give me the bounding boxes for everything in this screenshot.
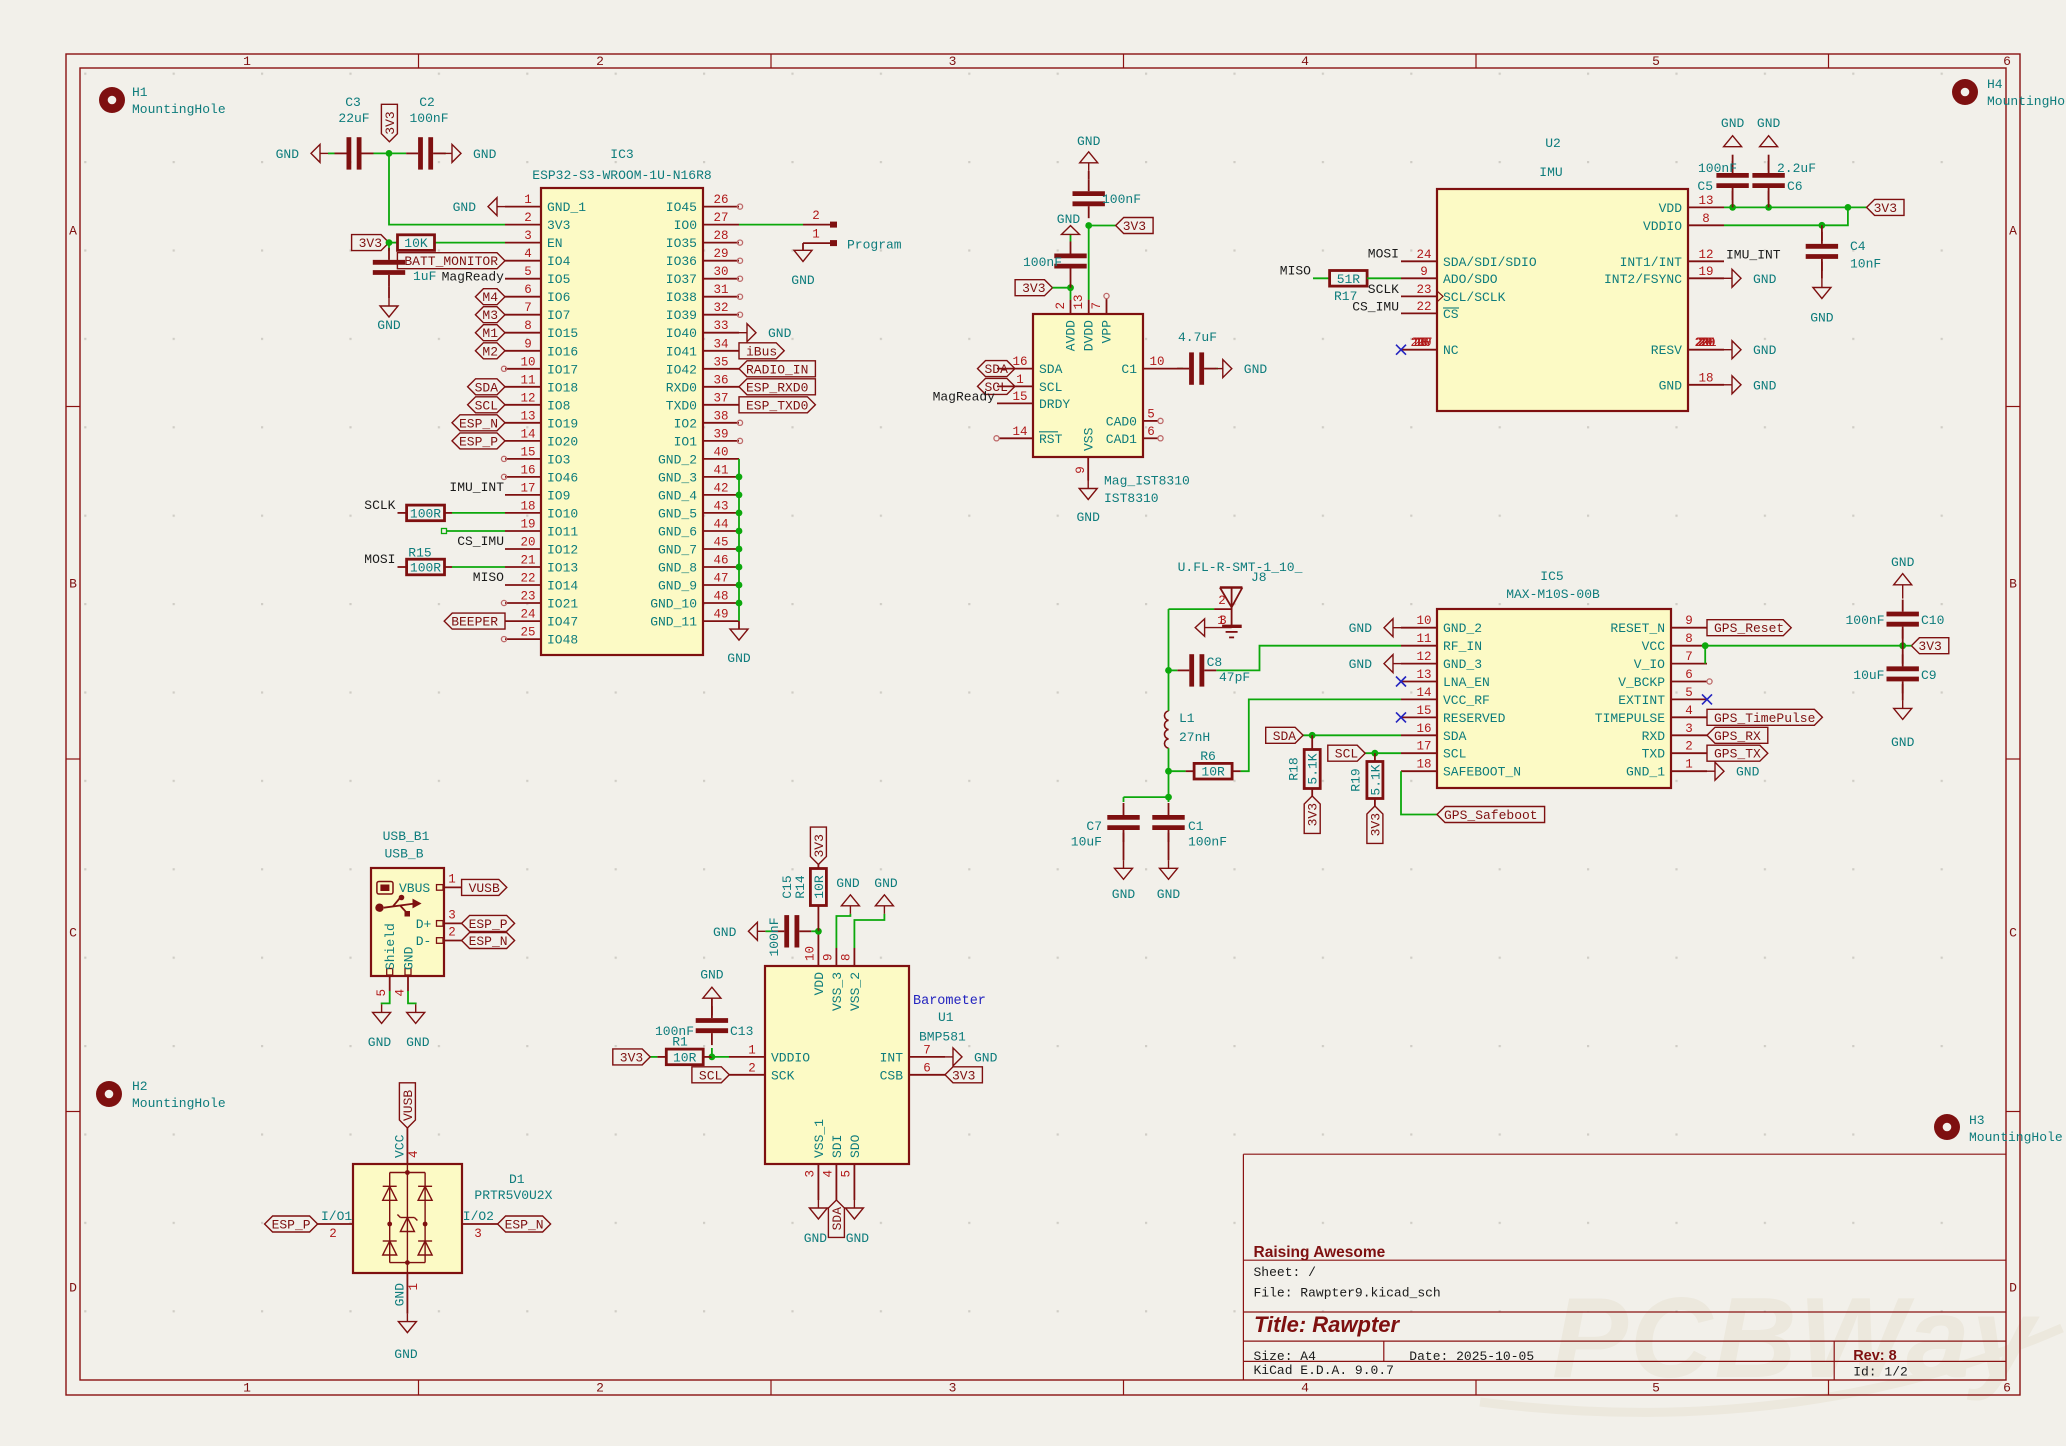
svg-text:SDA/SDI/SDIO: SDA/SDI/SDIO xyxy=(1443,255,1537,270)
svg-text:1: 1 xyxy=(1016,373,1024,387)
svg-text:GND: GND xyxy=(974,1050,998,1065)
svg-text:3V3: 3V3 xyxy=(359,236,382,251)
svg-text:IO46: IO46 xyxy=(547,470,578,485)
svg-text:Title: Rawpter: Title: Rawpter xyxy=(1254,1312,1401,1337)
svg-text:GND: GND xyxy=(1736,765,1760,780)
svg-text:GND_1: GND_1 xyxy=(547,200,586,215)
svg-text:TXD: TXD xyxy=(1642,747,1666,762)
svg-text:GPS_Reset: GPS_Reset xyxy=(1714,621,1784,636)
svg-text:CSB: CSB xyxy=(880,1068,904,1083)
svg-text:18: 18 xyxy=(1416,758,1431,772)
svg-text:IST8310: IST8310 xyxy=(1104,491,1159,506)
svg-text:GND: GND xyxy=(1157,887,1181,902)
svg-text:8: 8 xyxy=(524,319,532,333)
svg-text:4.7uF: 4.7uF xyxy=(1178,330,1217,345)
svg-text:5: 5 xyxy=(1652,1381,1660,1396)
svg-text:GND: GND xyxy=(1891,555,1915,570)
svg-text:16: 16 xyxy=(1416,722,1431,736)
svg-text:GND: GND xyxy=(1721,116,1745,131)
svg-text:3: 3 xyxy=(804,1170,818,1178)
svg-text:IO37: IO37 xyxy=(666,272,697,287)
svg-text:SCLK: SCLK xyxy=(364,498,395,513)
svg-text:SCL: SCL xyxy=(1039,380,1062,395)
svg-text:VCC_RF: VCC_RF xyxy=(1443,693,1490,708)
svg-text:IO5: IO5 xyxy=(547,272,570,287)
svg-text:ESP_RXD0: ESP_RXD0 xyxy=(746,380,808,395)
svg-text:18: 18 xyxy=(520,499,535,513)
svg-text:15: 15 xyxy=(1416,704,1431,718)
svg-text:C9: C9 xyxy=(1921,668,1937,683)
svg-text:2: 2 xyxy=(1685,740,1693,754)
svg-text:IO36: IO36 xyxy=(666,254,697,269)
svg-text:5: 5 xyxy=(1147,407,1155,421)
svg-text:GND: GND xyxy=(402,946,417,970)
svg-text:IO40: IO40 xyxy=(666,326,697,341)
svg-text:U.FL-R-SMT-1_10_: U.FL-R-SMT-1_10_ xyxy=(1178,560,1303,575)
svg-text:VDD: VDD xyxy=(1659,201,1683,216)
svg-text:3V3: 3V3 xyxy=(952,1068,975,1083)
svg-text:47pF: 47pF xyxy=(1219,670,1250,685)
svg-text:IO18: IO18 xyxy=(547,380,578,395)
svg-text:IO47: IO47 xyxy=(547,615,578,630)
svg-text:10: 10 xyxy=(1416,614,1431,628)
svg-text:GND: GND xyxy=(1077,134,1101,149)
svg-text:GND: GND xyxy=(1057,212,1081,227)
svg-text:GND_7: GND_7 xyxy=(658,543,697,558)
svg-text:15: 15 xyxy=(520,445,535,459)
svg-text:MISO: MISO xyxy=(473,570,504,585)
svg-text:5: 5 xyxy=(375,989,389,997)
svg-text:Rev: 8: Rev: 8 xyxy=(1853,1348,1897,1364)
svg-text:37: 37 xyxy=(713,391,728,405)
svg-text:9: 9 xyxy=(1074,466,1088,474)
svg-text:GND: GND xyxy=(377,318,401,333)
svg-text:Program: Program xyxy=(847,238,902,253)
svg-text:IO17: IO17 xyxy=(547,362,578,377)
svg-text:TIMEPULSE: TIMEPULSE xyxy=(1595,711,1665,726)
svg-text:IO8: IO8 xyxy=(547,398,570,413)
svg-text:GND: GND xyxy=(1349,657,1373,672)
svg-text:6: 6 xyxy=(1147,425,1155,439)
svg-text:31: 31 xyxy=(713,283,728,297)
svg-text:J8: J8 xyxy=(1251,570,1267,585)
svg-text:IO2: IO2 xyxy=(674,416,697,431)
svg-text:GND: GND xyxy=(874,876,898,891)
svg-text:VCC: VCC xyxy=(1642,639,1666,654)
svg-text:H1: H1 xyxy=(132,85,148,100)
svg-text:4: 4 xyxy=(524,247,532,261)
svg-text:IO13: IO13 xyxy=(547,561,578,576)
svg-text:SDO: SDO xyxy=(848,1134,863,1158)
svg-text:ESP_TXD0: ESP_TXD0 xyxy=(746,398,808,413)
svg-text:100nF: 100nF xyxy=(655,1024,694,1039)
svg-text:GND: GND xyxy=(453,200,477,215)
svg-text:NC: NC xyxy=(1443,343,1459,358)
svg-text:TXD0: TXD0 xyxy=(666,398,697,413)
svg-text:41: 41 xyxy=(713,463,728,477)
svg-text:9: 9 xyxy=(524,337,532,351)
svg-text:GND: GND xyxy=(1112,887,1136,902)
svg-text:IC5: IC5 xyxy=(1540,569,1563,584)
svg-text:C: C xyxy=(69,926,77,941)
svg-text:2: 2 xyxy=(1054,302,1068,310)
svg-text:A: A xyxy=(2009,224,2017,239)
svg-text:GND_9: GND_9 xyxy=(658,579,697,594)
svg-text:ESP_P: ESP_P xyxy=(469,917,508,932)
svg-text:20: 20 xyxy=(520,536,535,550)
svg-text:GPS_RX: GPS_RX xyxy=(1714,729,1761,744)
svg-text:3V3: 3V3 xyxy=(383,111,398,134)
svg-text:GND: GND xyxy=(368,1035,392,1050)
svg-text:10: 10 xyxy=(1149,355,1164,369)
svg-text:GND: GND xyxy=(1753,378,1777,393)
svg-text:1: 1 xyxy=(243,1381,251,1396)
svg-text:IMU_INT: IMU_INT xyxy=(449,480,504,495)
svg-text:GND: GND xyxy=(727,651,751,666)
svg-text:10nF: 10nF xyxy=(1850,257,1881,272)
svg-text:VDDIO: VDDIO xyxy=(1643,219,1682,234)
svg-text:SDA: SDA xyxy=(1039,362,1063,377)
svg-text:GPS_TX: GPS_TX xyxy=(1714,747,1761,762)
svg-text:IO10: IO10 xyxy=(547,506,578,521)
svg-text:VSS_2: VSS_2 xyxy=(848,972,863,1011)
svg-text:C1: C1 xyxy=(1188,819,1204,834)
svg-text:7: 7 xyxy=(923,1043,931,1057)
svg-text:C7: C7 xyxy=(1086,819,1102,834)
svg-text:U1: U1 xyxy=(938,1010,954,1025)
svg-text:GND: GND xyxy=(836,876,860,891)
svg-text:13: 13 xyxy=(1416,668,1431,682)
svg-text:9: 9 xyxy=(1420,265,1428,279)
svg-text:AVDD: AVDD xyxy=(1064,320,1079,351)
svg-text:10K: 10K xyxy=(404,236,428,251)
svg-text:3V3: 3V3 xyxy=(1918,639,1941,654)
svg-text:10R: 10R xyxy=(673,1050,697,1065)
svg-text:C2: C2 xyxy=(419,95,435,110)
svg-text:IO19: IO19 xyxy=(547,416,578,431)
svg-text:4: 4 xyxy=(393,989,407,997)
svg-text:36: 36 xyxy=(713,373,728,387)
svg-text:GND_8: GND_8 xyxy=(658,561,697,576)
svg-text:Size: A4: Size: A4 xyxy=(1254,1349,1317,1364)
svg-text:GND_1: GND_1 xyxy=(1626,765,1665,780)
svg-text:12: 12 xyxy=(1416,650,1431,664)
svg-text:10uF: 10uF xyxy=(1071,835,1102,850)
svg-text:3: 3 xyxy=(474,1227,482,1241)
svg-text:MOSI: MOSI xyxy=(364,552,395,567)
svg-text:GND: GND xyxy=(791,273,815,288)
svg-text:27: 27 xyxy=(713,211,728,225)
svg-text:22: 22 xyxy=(1416,300,1431,314)
svg-text:SDA: SDA xyxy=(475,380,499,395)
svg-text:BEEPER: BEEPER xyxy=(451,615,498,630)
svg-text:CAD0: CAD0 xyxy=(1106,414,1137,429)
svg-text:MountingHole: MountingHole xyxy=(1969,1130,2063,1145)
svg-text:3V3: 3V3 xyxy=(1022,281,1045,296)
svg-text:RXD0: RXD0 xyxy=(666,380,697,395)
svg-text:I/O1: I/O1 xyxy=(321,1209,352,1224)
svg-text:R19: R19 xyxy=(1349,768,1364,791)
svg-text:5: 5 xyxy=(524,265,532,279)
svg-text:1: 1 xyxy=(812,228,820,242)
svg-text:GND: GND xyxy=(1757,116,1781,131)
svg-text:5: 5 xyxy=(1652,54,1660,69)
svg-text:SDA: SDA xyxy=(1443,729,1467,744)
svg-text:C6: C6 xyxy=(1787,179,1803,194)
svg-text:4: 4 xyxy=(1685,704,1693,718)
svg-text:14: 14 xyxy=(1416,686,1431,700)
svg-text:IO9: IO9 xyxy=(547,488,570,503)
svg-text:17: 17 xyxy=(1416,740,1431,754)
svg-text:3V3: 3V3 xyxy=(1123,219,1146,234)
svg-text:4: 4 xyxy=(822,1170,836,1178)
svg-text:3: 3 xyxy=(1685,722,1693,736)
svg-text:13: 13 xyxy=(520,409,535,423)
svg-text:IO16: IO16 xyxy=(547,344,578,359)
svg-text:2: 2 xyxy=(596,54,604,69)
svg-text:100nF: 100nF xyxy=(1023,255,1062,270)
svg-text:RF_IN: RF_IN xyxy=(1443,639,1482,654)
svg-text:R6: R6 xyxy=(1200,749,1216,764)
svg-text:10uF: 10uF xyxy=(1853,668,1884,683)
svg-text:MISO: MISO xyxy=(1280,263,1311,278)
svg-text:2: 2 xyxy=(329,1227,337,1241)
svg-text:40: 40 xyxy=(713,445,728,459)
svg-text:22: 22 xyxy=(520,572,535,586)
svg-text:3V3: 3V3 xyxy=(1306,803,1321,826)
svg-text:VUSB: VUSB xyxy=(401,1090,416,1121)
svg-text:D+: D+ xyxy=(416,917,432,932)
svg-text:Mag_IST8310: Mag_IST8310 xyxy=(1104,474,1190,489)
svg-text:23: 23 xyxy=(1416,283,1431,297)
svg-text:IO38: IO38 xyxy=(666,290,697,305)
svg-text:GND: GND xyxy=(1810,311,1834,326)
svg-text:GND_3: GND_3 xyxy=(1443,657,1482,672)
svg-text:EN: EN xyxy=(547,236,563,251)
svg-text:3: 3 xyxy=(949,1381,957,1396)
svg-text:7: 7 xyxy=(1685,650,1693,664)
svg-text:SCL: SCL xyxy=(475,398,498,413)
svg-text:C8: C8 xyxy=(1207,655,1223,670)
svg-text:RST: RST xyxy=(1039,432,1063,447)
svg-text:IC3: IC3 xyxy=(610,147,633,162)
svg-text:D: D xyxy=(2009,1281,2017,1296)
svg-text:2: 2 xyxy=(524,211,532,225)
svg-text:GND_11: GND_11 xyxy=(650,615,697,630)
svg-text:IO15: IO15 xyxy=(547,326,578,341)
svg-text:GND_3: GND_3 xyxy=(658,470,697,485)
svg-text:9: 9 xyxy=(1685,614,1693,628)
svg-text:IO12: IO12 xyxy=(547,543,578,558)
svg-text:100nF: 100nF xyxy=(1698,161,1737,176)
svg-text:VBUS: VBUS xyxy=(399,881,430,896)
svg-text:SDA: SDA xyxy=(984,362,1008,377)
svg-text:GND: GND xyxy=(1659,378,1683,393)
svg-text:17: 17 xyxy=(1417,336,1432,350)
svg-text:3V3: 3V3 xyxy=(547,218,570,233)
svg-text:CS_IMU: CS_IMU xyxy=(457,534,504,549)
svg-text:INT2/FSYNC: INT2/FSYNC xyxy=(1604,272,1682,287)
svg-text:1uF: 1uF xyxy=(413,269,436,284)
svg-text:USB_B1: USB_B1 xyxy=(383,829,430,844)
svg-text:CS: CS xyxy=(1443,307,1459,322)
svg-text:16: 16 xyxy=(520,463,535,477)
svg-text:1: 1 xyxy=(243,54,251,69)
svg-text:3: 3 xyxy=(949,54,957,69)
svg-text:1: 1 xyxy=(407,1283,421,1291)
svg-text:Barometer: Barometer xyxy=(913,994,986,1009)
svg-text:23: 23 xyxy=(520,590,535,604)
svg-text:INT1/INT: INT1/INT xyxy=(1620,255,1683,270)
svg-text:100R: 100R xyxy=(410,561,441,576)
svg-text:100R: 100R xyxy=(410,506,441,521)
svg-text:12: 12 xyxy=(1698,248,1713,262)
svg-text:1: 1 xyxy=(748,1043,756,1057)
svg-text:GPS_Safeboot: GPS_Safeboot xyxy=(1444,808,1538,823)
svg-text:U2: U2 xyxy=(1545,136,1561,151)
svg-text:15: 15 xyxy=(1012,390,1027,404)
svg-text:6: 6 xyxy=(2003,54,2011,69)
svg-text:M1: M1 xyxy=(482,326,498,341)
svg-text:IO48: IO48 xyxy=(547,633,578,648)
svg-text:10R: 10R xyxy=(1201,765,1225,780)
svg-text:44: 44 xyxy=(713,518,728,532)
svg-text:2: 2 xyxy=(448,926,456,940)
svg-text:RADIO_IN: RADIO_IN xyxy=(746,362,808,377)
svg-text:Id: 1/2: Id: 1/2 xyxy=(1853,1365,1908,1380)
svg-text:GND: GND xyxy=(1244,362,1268,377)
svg-text:3V3: 3V3 xyxy=(1874,201,1897,216)
svg-text:GND: GND xyxy=(1349,621,1373,636)
svg-text:GPS_TimePulse: GPS_TimePulse xyxy=(1714,711,1815,726)
svg-text:8: 8 xyxy=(1702,212,1710,226)
svg-text:34: 34 xyxy=(713,337,728,351)
svg-text:8: 8 xyxy=(840,953,854,961)
svg-text:GND: GND xyxy=(1076,510,1100,525)
svg-text:SCL: SCL xyxy=(1443,747,1466,762)
svg-text:VSS_3: VSS_3 xyxy=(830,972,845,1011)
svg-text:C13: C13 xyxy=(730,1024,753,1039)
svg-text:SCL/SCLK: SCL/SCLK xyxy=(1443,290,1506,305)
svg-text:5: 5 xyxy=(840,1170,854,1178)
svg-text:21: 21 xyxy=(1701,336,1716,350)
svg-text:3V3: 3V3 xyxy=(812,834,827,857)
svg-text:Date: 2025-10-05: Date: 2025-10-05 xyxy=(1409,1349,1534,1364)
svg-text:M4: M4 xyxy=(482,290,498,305)
svg-text:SCLK: SCLK xyxy=(1368,282,1399,297)
svg-text:100nF: 100nF xyxy=(409,111,448,126)
svg-text:L1: L1 xyxy=(1179,711,1195,726)
svg-text:51R: 51R xyxy=(1337,272,1361,287)
svg-text:ESP_N: ESP_N xyxy=(469,934,508,949)
svg-text:GND: GND xyxy=(700,968,724,983)
svg-text:GND: GND xyxy=(768,326,792,341)
svg-text:2.2uF: 2.2uF xyxy=(1777,161,1816,176)
svg-text:MountingHole: MountingHole xyxy=(1987,94,2066,109)
svg-text:V_IO: V_IO xyxy=(1634,657,1665,672)
svg-text:C: C xyxy=(2009,926,2017,941)
svg-text:EXTINT: EXTINT xyxy=(1618,693,1665,708)
svg-text:B: B xyxy=(69,577,77,592)
svg-text:GND: GND xyxy=(1891,735,1915,750)
svg-text:D: D xyxy=(69,1281,77,1296)
svg-text:GND_2: GND_2 xyxy=(658,452,697,467)
svg-text:File: Rawpter9.kicad_sch: File: Rawpter9.kicad_sch xyxy=(1254,1286,1441,1301)
svg-text:H3: H3 xyxy=(1969,1113,1985,1128)
svg-text:48: 48 xyxy=(713,590,728,604)
svg-text:CS_IMU: CS_IMU xyxy=(1352,299,1399,314)
svg-text:100nF: 100nF xyxy=(1845,613,1884,628)
svg-text:GND: GND xyxy=(392,1283,407,1307)
svg-text:GND_4: GND_4 xyxy=(658,488,697,503)
svg-text:45: 45 xyxy=(713,536,728,550)
svg-text:H4: H4 xyxy=(1987,77,2003,92)
svg-text:1: 1 xyxy=(1685,758,1693,772)
svg-text:SDI: SDI xyxy=(830,1135,845,1158)
svg-text:ESP_N: ESP_N xyxy=(505,1218,544,1233)
svg-text:SDA: SDA xyxy=(830,1207,845,1231)
svg-text:6: 6 xyxy=(923,1061,931,1075)
svg-text:SDA: SDA xyxy=(1273,729,1297,744)
svg-text:1: 1 xyxy=(448,872,456,886)
svg-text:D-: D- xyxy=(416,934,432,949)
svg-text:19: 19 xyxy=(1698,265,1713,279)
svg-text:GND: GND xyxy=(394,1347,418,1362)
svg-text:IO0: IO0 xyxy=(674,218,697,233)
svg-text:100nF: 100nF xyxy=(1102,192,1141,207)
svg-text:18: 18 xyxy=(1698,371,1713,385)
svg-text:SAFEBOOT_N: SAFEBOOT_N xyxy=(1443,765,1521,780)
svg-text:2: 2 xyxy=(812,209,820,223)
svg-text:PCBWay: PCBWay xyxy=(1552,1275,2041,1402)
svg-text:RESET_N: RESET_N xyxy=(1610,621,1665,636)
svg-text:R14: R14 xyxy=(793,875,808,899)
svg-text:13: 13 xyxy=(1698,194,1713,208)
svg-text:LNA_EN: LNA_EN xyxy=(1443,675,1490,690)
svg-text:10R: 10R xyxy=(812,875,827,899)
svg-text:M2: M2 xyxy=(482,344,498,359)
svg-text:BATT_MONITOR: BATT_MONITOR xyxy=(404,254,498,269)
svg-text:9: 9 xyxy=(822,953,836,961)
svg-text:4: 4 xyxy=(1301,1381,1309,1396)
svg-text:29: 29 xyxy=(713,247,728,261)
svg-text:IO41: IO41 xyxy=(666,344,697,359)
svg-text:22uF: 22uF xyxy=(338,111,369,126)
svg-text:ESP_P: ESP_P xyxy=(272,1218,311,1233)
svg-text:25: 25 xyxy=(520,626,535,640)
svg-text:47: 47 xyxy=(713,572,728,586)
svg-text:SCK: SCK xyxy=(771,1068,795,1083)
svg-text:GND: GND xyxy=(473,147,497,162)
svg-text:28: 28 xyxy=(713,229,728,243)
svg-text:C4: C4 xyxy=(1850,239,1866,254)
svg-text:C3: C3 xyxy=(345,95,361,110)
svg-text:GND: GND xyxy=(406,1035,430,1050)
svg-text:GND_2: GND_2 xyxy=(1443,621,1482,636)
svg-text:D1: D1 xyxy=(509,1172,525,1187)
svg-text:C10: C10 xyxy=(1921,613,1944,628)
svg-text:1: 1 xyxy=(524,193,532,207)
svg-text:6: 6 xyxy=(1685,668,1693,682)
svg-text:17: 17 xyxy=(520,481,535,495)
svg-text:IO35: IO35 xyxy=(666,236,697,251)
svg-text:10: 10 xyxy=(804,946,818,961)
svg-text:DRDY: DRDY xyxy=(1039,397,1070,412)
svg-text:4: 4 xyxy=(1301,54,1309,69)
svg-text:GND: GND xyxy=(276,147,300,162)
svg-text:M3: M3 xyxy=(482,308,498,323)
svg-text:32: 32 xyxy=(713,301,728,315)
